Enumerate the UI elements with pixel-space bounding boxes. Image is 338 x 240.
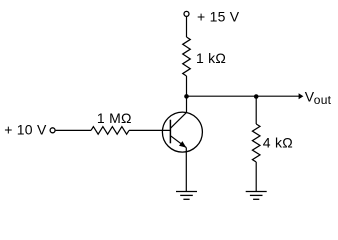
label 1 kΩ: [196, 50, 226, 66]
wire emitter to ground: [185, 148, 187, 192]
terminal +15V supply: [184, 11, 189, 16]
terminal +10V input: [50, 128, 55, 133]
node A collector junction: [184, 94, 189, 99]
svg-text:4 kΩ: 4 kΩ: [263, 135, 293, 151]
svg-text:1 kΩ: 1 kΩ: [196, 50, 226, 66]
wire R2 to base: [129, 129, 170, 131]
wire supply to R1: [186, 17, 188, 37]
resistor R1 1 kΩ: [183, 37, 191, 76]
label Vout: [305, 89, 332, 108]
resistor R2 1 MΩ: [91, 127, 129, 135]
wire R1 to collector node: [186, 76, 188, 96]
svg-text:+ 10 V: + 10 V: [4, 122, 47, 138]
transistor Q1 NPN: [162, 112, 202, 152]
wire R3 to ground: [255, 162, 257, 192]
svg-text:+ 15 V: + 15 V: [197, 9, 240, 25]
label +15 V: [197, 9, 240, 25]
resistor R3 4 kΩ: [252, 124, 260, 162]
svg-text:1 MΩ: 1 MΩ: [97, 110, 132, 126]
ground emitter: [176, 192, 197, 200]
wire input terminal to R2: [56, 129, 91, 131]
wire node to transistor collector: [186, 96, 188, 112]
wire node to R3: [255, 96, 257, 124]
label +10 V: [4, 122, 47, 138]
label 4 kΩ: [263, 135, 293, 151]
node B load junction: [254, 94, 259, 99]
ground load: [246, 192, 267, 200]
wire node to output arrow: [187, 93, 304, 99]
svg-text:out: out: [314, 93, 332, 107]
label 1 MΩ: [97, 110, 132, 126]
